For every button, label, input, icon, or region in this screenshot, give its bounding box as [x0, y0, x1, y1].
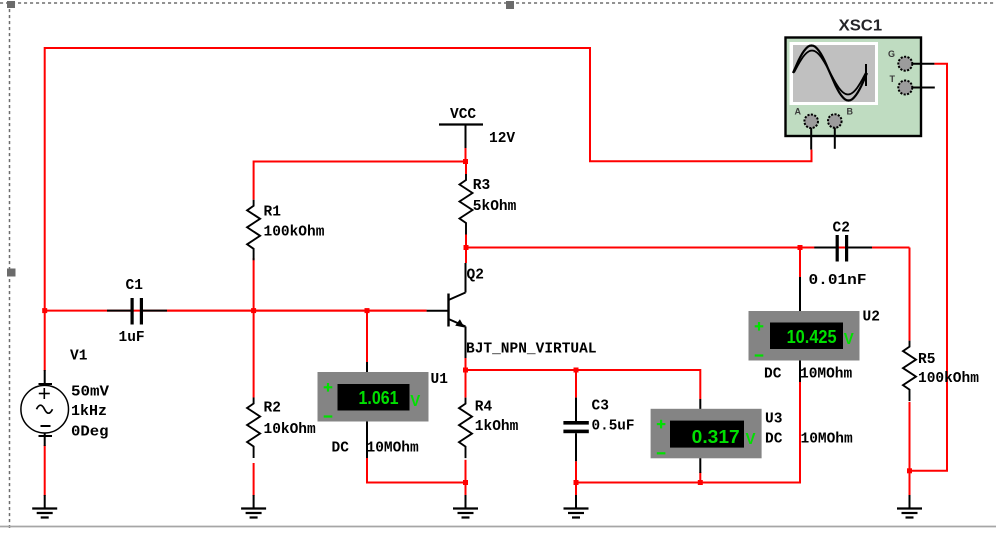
svg-text:1kHz: 1kHz: [71, 404, 107, 420]
wire: collector vertical segment: [465, 248, 467, 264]
svg-text:10.425: 10.425: [787, 326, 837, 347]
pin B stub (XSC1): [834, 128, 836, 149]
svg-text:R5: R5: [918, 352, 935, 368]
oscilloscope XSC1 body and screen: [786, 38, 922, 137]
svg-text:V: V: [410, 393, 421, 410]
junction node collector-U2: [798, 245, 803, 250]
junction node collector-R3: [464, 245, 469, 250]
pin A stub (XSC1): [810, 128, 812, 150]
resistor R1: [247, 200, 260, 260]
pin T stub (XSC1): [912, 87, 935, 89]
ground (R5 branch): [897, 495, 922, 518]
wire: junction down to V1 plus terminal: [44, 311, 46, 371]
svg-text:DC: DC: [765, 432, 783, 448]
svg-text:10kOhm: 10kOhm: [264, 422, 317, 438]
junction node VCC: [463, 159, 468, 164]
svg-text:U3: U3: [765, 412, 782, 428]
svg-text:0.01nF: 0.01nF: [809, 273, 867, 289]
wire: R5 bottom node across and up to scope ground G: [910, 64, 948, 471]
svg-text:10MOhm: 10MOhm: [801, 432, 854, 448]
terminal B (XSC1): [828, 114, 842, 128]
svg-text:R1: R1: [264, 205, 282, 221]
svg-text:0.5uF: 0.5uF: [592, 419, 635, 435]
wire: U1 plus lead up to base rail: [366, 311, 368, 362]
wire: C1 output red segment: [167, 310, 427, 312]
svg-text:T: T: [890, 74, 896, 84]
svg-text:1.061: 1.061: [359, 387, 399, 408]
svg-text:5kOhm: 5kOhm: [473, 199, 517, 215]
junction node emitter-R4: [463, 368, 468, 373]
svg-text:G: G: [888, 49, 895, 59]
svg-text:VCC: VCC: [450, 107, 476, 123]
terminal T (XSC1): [898, 81, 912, 95]
svg-text:U1: U1: [431, 372, 449, 388]
junction node emitter-C3: [574, 368, 579, 373]
wire: R4 bottom to ground: [465, 460, 467, 496]
svg-text:V: V: [844, 331, 855, 348]
junction node V1-C1: [42, 308, 47, 313]
wire: net V1+ from source up, across top, down to scope channel A: [45, 48, 812, 310]
junction node R5-bottom ground: [907, 468, 912, 473]
svg-text:R3: R3: [473, 178, 490, 194]
junction node R4-bottom ground: [463, 480, 468, 485]
wire: U3 minus lead: [699, 472, 701, 483]
svg-text:V1: V1: [70, 349, 88, 365]
junction node base-U1: [365, 308, 370, 313]
wire: R2 top lead: [253, 311, 255, 398]
svg-text:U2: U2: [863, 310, 880, 326]
wire: R4 top lead: [465, 370, 467, 398]
power symbol VCC: [439, 125, 483, 149]
wire: R3 top lead: [465, 162, 467, 175]
scope trace channel A (sine): [793, 46, 867, 101]
terminal G (XSC1): [898, 57, 912, 71]
resistor R4: [459, 398, 472, 459]
svg-text:100kOhm: 100kOhm: [918, 371, 979, 387]
wire: emitter vertical segment: [465, 358, 467, 370]
svg-text:BJT_NPN_VIRTUAL: BJT_NPN_VIRTUAL: [466, 342, 597, 358]
voltmeter U3: [651, 399, 762, 473]
capacitor C1: [107, 298, 167, 325]
svg-text:XSC1: XSC1: [839, 18, 883, 35]
voltmeter U2: [749, 277, 860, 382]
resistor R5: [903, 341, 916, 402]
wire: base rail from C1 node to Q2 base: [45, 310, 427, 312]
ground (R4 branch): [453, 495, 478, 518]
svg-text:C2: C2: [833, 221, 850, 237]
svg-text:0Deg: 0Deg: [71, 425, 109, 441]
ground (C3 branch): [564, 495, 589, 518]
wire: C3 bottom to ground rail: [575, 461, 577, 496]
ground (V1 branch): [32, 495, 57, 518]
page bottom edge line: [0, 526, 996, 528]
wire: R5 ground stem: [909, 471, 911, 496]
ground (R2 branch): [241, 495, 266, 518]
svg-text:R4: R4: [475, 400, 493, 416]
svg-text:0.317: 0.317: [692, 426, 740, 447]
wire: C2 right plate to R5 top: [909, 248, 911, 341]
wire: collector node from R3 bottom right to C2: [466, 235, 910, 248]
svg-text:1uF: 1uF: [119, 330, 145, 346]
AC voltage source V1: [21, 370, 69, 446]
wire: emitter rail to U3 plus: [466, 370, 701, 399]
wire: C3 top lead: [575, 370, 577, 398]
wire: U1 minus lead to R4 bottom node: [367, 458, 466, 483]
svg-text:50mV: 50mV: [71, 385, 109, 401]
junction node U3-minus: [698, 480, 703, 485]
capacitor C2: [814, 235, 872, 262]
wire: VCC stem segment: [465, 147, 467, 162]
resistor R3: [460, 174, 473, 235]
svg-text:100kOhm: 100kOhm: [264, 225, 325, 241]
voltmeter U1: [318, 362, 429, 458]
svg-text:R2: R2: [264, 401, 281, 417]
svg-text:12V: 12V: [489, 131, 515, 147]
capacitor C3: [563, 398, 588, 462]
transistor Q2 (NPN BJT): [427, 263, 466, 358]
junction node base-R1R2: [251, 308, 256, 313]
svg-text:Q2: Q2: [467, 268, 484, 284]
terminal A (XSC1): [804, 115, 818, 129]
svg-text:A: A: [795, 107, 802, 117]
resistor R2: [247, 398, 260, 459]
wire: VCC rail from R1 top to VCC stem: [254, 162, 466, 200]
wire: bottom ground rail C3 to U2 minus: [576, 382, 800, 483]
svg-text:1kOhm: 1kOhm: [475, 419, 519, 435]
svg-text:V: V: [746, 431, 757, 448]
wire: V1 minus terminal to ground: [44, 445, 46, 496]
svg-text:DC: DC: [764, 367, 782, 383]
pin G stub (XSC1): [912, 63, 934, 65]
svg-text:C1: C1: [126, 278, 144, 294]
wire: R2 bottom to ground: [253, 463, 255, 496]
scope trace end marker: [865, 64, 867, 86]
svg-text:DC: DC: [332, 441, 350, 457]
svg-text:10MOhm: 10MOhm: [800, 367, 853, 383]
svg-text:B: B: [847, 107, 854, 117]
scope trace channel B (sine): [794, 51, 866, 95]
svg-text:10MOhm: 10MOhm: [367, 441, 420, 457]
wire: R1 bottom lead: [253, 258, 255, 311]
wire: U2 plus lead from collector node: [799, 248, 801, 278]
junction node C3-bottom ground: [574, 480, 579, 485]
wire: C2 output red segment to R5 column: [872, 247, 910, 249]
svg-text:C3: C3: [592, 399, 609, 415]
